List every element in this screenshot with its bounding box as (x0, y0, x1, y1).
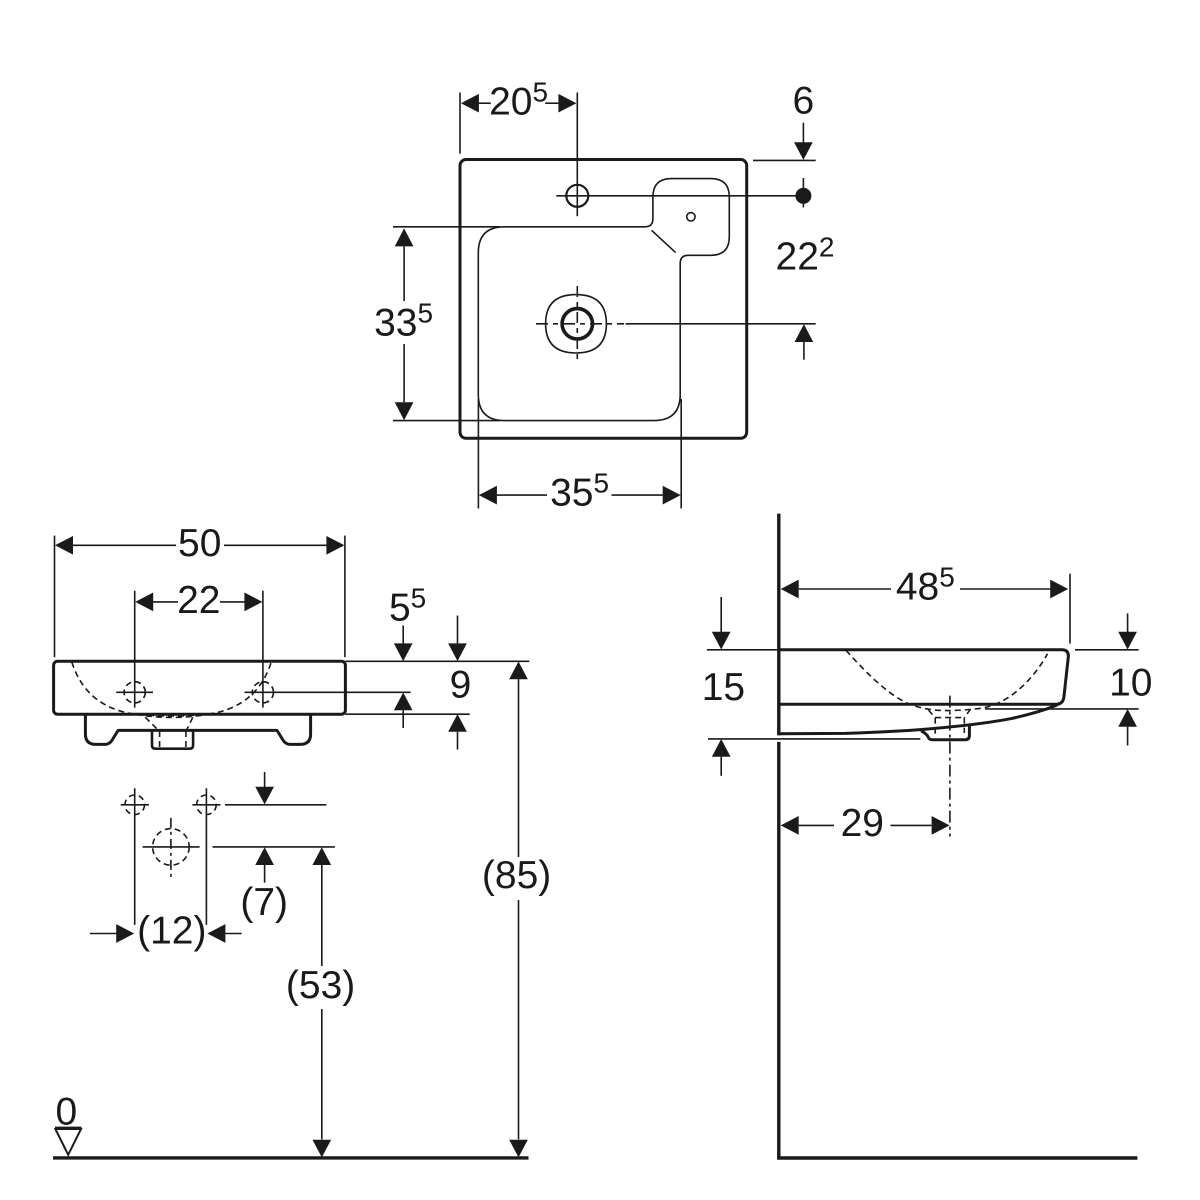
wall line (lower segment) (777, 742, 780, 1158)
dim 10: down arrow (1127, 613, 1129, 632)
tap hole leader to dot (556, 195, 796, 197)
svg-text:29: 29 (841, 802, 884, 845)
dim 5.5: down arrow (402, 626, 404, 645)
drain vertical centerline (dash-dot) (576, 286, 578, 362)
trap step + box (side) (921, 726, 969, 740)
svg-text:50: 50 (178, 522, 221, 565)
trap box (front) (152, 731, 193, 749)
dim 10: top extension line (1075, 649, 1139, 651)
drain hole front (hidden) (153, 829, 190, 866)
svg-text:22: 22 (177, 579, 220, 622)
dim 33.5: bottom extension line (393, 420, 500, 422)
reference dot vertical tick (802, 178, 804, 207)
drain inner circle (562, 309, 592, 339)
floor line (side) (777, 1156, 1137, 1159)
reference dot (795, 188, 811, 204)
basin profile rim (side) (779, 650, 1069, 705)
dim 50: arrowheads (55, 536, 73, 555)
svg-text:(7): (7) (240, 881, 288, 924)
dim 35.5: dimension line (497, 494, 547, 496)
svg-text:6: 6 (792, 80, 814, 123)
dim (7): down arrow (264, 772, 266, 788)
datum underline (55, 1127, 82, 1129)
fixing hole left horizontal tick (121, 804, 149, 806)
dim 35.5: left extension line (477, 399, 479, 509)
foot / mounting bracket (85, 716, 310, 745)
dim 15: bottom extension line (708, 738, 920, 740)
dim 10: up arrow (1118, 709, 1137, 727)
wall line (upper segment) (777, 514, 780, 736)
dim 22: arrowheads (135, 593, 153, 612)
hidden tap hole right (252, 682, 273, 703)
dim 48.5: dimension line (799, 588, 891, 590)
dim 22.2: up arrow (795, 324, 814, 342)
drain centerline (side) (949, 696, 951, 837)
dim (53): dimension line (321, 865, 323, 966)
dim 22 extension line right (through hole) (262, 591, 264, 708)
svg-text:(53): (53) (286, 964, 355, 1007)
bottom edge extension line (345, 713, 469, 715)
trap hidden trapezoid sides (145, 717, 159, 731)
dim 33.5: top extension line (393, 226, 500, 228)
shelf small hole (687, 213, 695, 221)
fixing hole right horizontal tick (192, 804, 220, 806)
dim 29: arrowheads (781, 816, 799, 835)
tap hole circle (566, 185, 588, 207)
dim (7): up arrow (255, 847, 274, 865)
svg-text:(12): (12) (137, 910, 206, 953)
drain front leader for (7)/(53) (213, 846, 335, 848)
dim 33.5: dimension line (403, 246, 405, 301)
dim 6: down arrow (802, 123, 804, 143)
dim 15: up arrow (712, 739, 731, 757)
dim (53): up arrow (312, 847, 331, 865)
dim 22: dimension line (153, 601, 178, 603)
datum triangle (55, 1129, 81, 1155)
apron bottom curve (side) (779, 705, 1058, 734)
tap hole right tick + leader for 5.5 (245, 691, 411, 693)
bowl-to-shelf chamfer diagonal (652, 230, 676, 252)
dim (85): up arrow (509, 662, 528, 680)
hidden bowl curve (side) (846, 650, 1048, 710)
hidden bowl dip arc (136, 714, 208, 717)
dim 35.5: right extension line (680, 399, 682, 509)
dim 48.5: arrowheads (781, 580, 799, 599)
ground line (front) (53, 1156, 529, 1159)
drain front vertical centerline (170, 818, 172, 877)
hidden tap hole left (124, 682, 145, 703)
bowl + shelf outline (plan, one path) (478, 179, 729, 421)
svg-text:10: 10 (1109, 662, 1152, 705)
drain leader line (626, 323, 816, 325)
tap hole centerline vertical (576, 93, 578, 217)
dim 6: extension of rear edge (753, 159, 816, 161)
dim 50: dimension line (73, 544, 177, 546)
trap hidden verticals (159, 731, 161, 748)
fixing hole vertical lines (134, 788, 136, 925)
fixing hole right (hidden) (197, 795, 217, 815)
dim 20.5: dimension line (479, 102, 491, 104)
dim (85): dimension line (518, 679, 520, 857)
dim 15: top extension line (707, 649, 779, 651)
top edge extension line (right of body) (345, 660, 529, 662)
svg-text:(85): (85) (482, 854, 551, 897)
dim 22 extension line left (through hole) (134, 591, 136, 708)
dim 33.5: arrowheads (395, 228, 414, 246)
dim 10: bottom extension line (985, 708, 1139, 710)
fixing holes leader for (7) (225, 804, 326, 806)
dim 35.5: arrowheads (479, 486, 497, 505)
basin body (front) (54, 661, 346, 714)
dim (85): down arrow (509, 1140, 528, 1158)
dim 20.5: arrowheads (461, 94, 479, 113)
drain front horizontal tick (143, 846, 200, 848)
dim 20.5: left extension line (459, 93, 461, 154)
fixing hole left (hidden) (125, 795, 145, 815)
dim 5.5: up arrow (394, 693, 413, 711)
svg-text:15: 15 (702, 666, 745, 709)
svg-text:9: 9 (450, 664, 472, 707)
dim 50: left extension (54, 536, 56, 658)
hidden bowl curve (front) (72, 662, 271, 716)
dim 9: down arrow (457, 616, 459, 645)
dim 29: dimension line (799, 824, 834, 826)
dim 50: right extension (344, 536, 346, 658)
hidden trap trapezoid (side) (929, 710, 936, 717)
dim (53): down arrow (312, 1140, 331, 1158)
dim 15: down arrow (720, 597, 722, 633)
tap hole left horizontal tick (116, 691, 153, 693)
basin outer square (plan) (460, 160, 747, 439)
dim 48.5: right extension line (1069, 574, 1071, 644)
dim 9: up arrow (448, 714, 467, 732)
drain horizontal centerline (dash-dot) (536, 323, 624, 325)
dim (12): dimension line + arrows (90, 933, 117, 935)
drain recess squircle (546, 295, 607, 353)
